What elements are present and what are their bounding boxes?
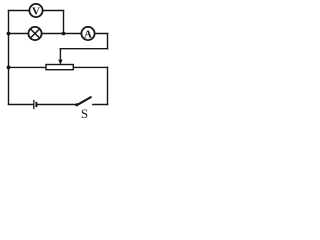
- svg-text:S: S: [81, 106, 88, 121]
- wire battery to switch: [37, 104, 77, 106]
- wire slider feed horizontal: [60, 48, 107, 50]
- ammeter A: [81, 27, 94, 41]
- svg-text:V: V: [32, 5, 40, 17]
- wire rheostat left: [9, 66, 47, 68]
- node dot left rheostat: [7, 66, 11, 70]
- wire top row: [9, 10, 64, 12]
- wire right vertical lower: [107, 67, 109, 104]
- battery long plate (+): [33, 100, 35, 109]
- svg-text:A: A: [84, 28, 92, 40]
- wire slider vertical: [59, 49, 61, 60]
- wire left vertical: [8, 11, 10, 105]
- switch S blade: [77, 97, 91, 105]
- voltmeter V: [29, 4, 42, 18]
- node dot left row2: [7, 32, 11, 36]
- wire right vertical upper: [107, 34, 109, 49]
- rheostat body R: [46, 65, 73, 70]
- wire second row: [9, 33, 108, 35]
- wire switch to right: [93, 104, 108, 106]
- wire drop from top row to node B: [63, 11, 65, 34]
- wire bottom left to battery: [9, 104, 34, 106]
- lamp L (circle with X): [28, 27, 41, 40]
- battery short plate (-): [35, 102, 37, 107]
- node dot junction row2: [62, 32, 66, 36]
- wire rheostat right: [73, 66, 107, 68]
- switch pivot: [76, 103, 79, 106]
- rheostat slider arrowhead: [58, 60, 62, 65]
